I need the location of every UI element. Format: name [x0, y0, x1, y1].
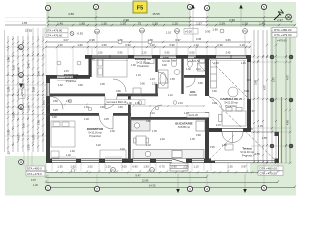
svg-text:1.35: 1.35 [152, 130, 157, 133]
window living-terrace wall [222, 128, 243, 132]
svg-text:0.90: 0.90 [116, 90, 121, 93]
wall int hall top [46, 94, 105, 97]
dim chain top row2 [48, 21, 292, 23]
section arrow top 2 [239, 5, 243, 28]
svg-text:2.10: 2.10 [183, 165, 189, 169]
hall west dimension line [47, 104, 127, 106]
bath counter [145, 59, 154, 64]
svg-text:3: 3 [189, 187, 191, 191]
svg-text:1.10: 1.10 [193, 165, 199, 169]
svg-text:1.30: 1.30 [135, 102, 140, 105]
svg-text:1.35: 1.35 [258, 125, 263, 128]
svg-text:1.50: 1.50 [143, 165, 149, 169]
terrace post top-right [275, 132, 279, 136]
svg-text:2: 2 [96, 187, 98, 191]
svg-text:2.55: 2.55 [262, 137, 267, 140]
svg-text:5: 5 [263, 186, 265, 190]
svg-text:F4: F4 [175, 30, 179, 34]
svg-text:.25: .25 [7, 151, 11, 155]
svg-text:0.80: 0.80 [196, 134, 201, 137]
window left-top wall [57, 75, 73, 79]
green highlight band bottom [5, 156, 46, 196]
section arrow bottom 1 [176, 174, 180, 193]
svg-text:1.35: 1.35 [248, 128, 253, 131]
svg-text:1.48: 1.48 [70, 150, 75, 153]
wall int bath left [155, 58, 157, 72]
svg-text:1.85: 1.85 [22, 21, 28, 25]
wall int hall bottom [46, 113, 99, 116]
svg-text:0.80: 0.80 [53, 100, 58, 103]
window marker bubbles above plan [95, 28, 248, 56]
svg-text:DTA +476.80: DTA +476.80 [46, 29, 63, 33]
entry steps [170, 163, 188, 171]
svg-text:4.97: 4.97 [286, 74, 290, 80]
svg-text:1.48: 1.48 [84, 118, 89, 121]
dim chain above plan row1 [46, 41, 250, 43]
svg-text:0.90: 0.90 [171, 165, 177, 169]
furniture wardrobe room2 [100, 150, 126, 159]
svg-text:.75: .75 [137, 21, 142, 25]
room label camera de zi [220, 97, 242, 108]
wall living bottom [205, 128, 251, 132]
grid bubble 5 bottom [261, 185, 266, 190]
svg-text:1.90: 1.90 [131, 64, 136, 67]
ticks top chains [47, 16, 296, 26]
wall left [46, 75, 50, 163]
furniture kitchen fridge [196, 121, 205, 131]
svg-text:2.30: 2.30 [110, 130, 115, 133]
svg-text:0.25: 0.25 [104, 118, 109, 121]
svg-text:14.30: 14.30 [149, 184, 156, 188]
svg-text:1.40: 1.40 [57, 21, 63, 25]
svg-text:0.25: 0.25 [210, 146, 215, 149]
svg-text:2.00: 2.00 [27, 104, 31, 110]
section arrow bottom 2 [243, 174, 247, 193]
furniture nightstand room2 [51, 151, 59, 158]
room label hol [189, 90, 197, 97]
svg-text:0.45: 0.45 [214, 62, 219, 65]
hall door marker 2 [173, 101, 177, 105]
svg-text:3.05: 3.05 [100, 83, 105, 86]
hall west door marker 2 [88, 107, 92, 111]
svg-text:0.45: 0.45 [196, 37, 202, 41]
hall west door marker 1 [68, 99, 72, 103]
level marker top-left [45, 28, 83, 38]
furniture dining table [219, 87, 247, 126]
door arcs [99, 72, 243, 143]
svg-text:2.15: 2.15 [150, 78, 155, 81]
svg-text:4: 4 [206, 6, 208, 10]
svg-text:S=3.95: S=3.95 [189, 94, 197, 97]
svg-text:4: 4 [206, 187, 208, 191]
svg-text:0.97: 0.97 [175, 38, 181, 42]
svg-text:2.40: 2.40 [27, 62, 31, 68]
svg-text:3: 3 [189, 5, 191, 9]
svg-text:DTA +480.0: DTA +480.0 [27, 167, 42, 171]
svg-text:0.90: 0.90 [125, 43, 131, 47]
svg-text:1.15: 1.15 [136, 74, 141, 77]
orange revision line right [281, 97, 283, 163]
hall label box 1 [105, 100, 145, 105]
svg-text:1.38: 1.38 [127, 102, 132, 105]
svg-text:2.10: 2.10 [178, 102, 183, 105]
svg-text:1.50: 1.50 [22, 122, 26, 128]
wall int bed2 right [128, 96, 131, 160]
svg-text:0.60: 0.60 [190, 52, 195, 55]
svg-text:2.10: 2.10 [42, 99, 46, 105]
WALLS [46, 55, 251, 163]
chain marker circle y42 b [148, 40, 152, 44]
svg-text:1.35: 1.35 [57, 165, 63, 169]
svg-text:2.97: 2.97 [250, 110, 255, 113]
svg-text:3.25: 3.25 [53, 109, 58, 112]
door arc bed2 [99, 115, 113, 129]
dim chain top row3 [48, 24, 295, 26]
grid bubble 4 bottom [204, 186, 209, 191]
wall mid vertical upper [205, 55, 209, 96]
svg-text:0.90: 0.90 [132, 165, 138, 169]
level label box bottom-left [26, 166, 45, 176]
svg-text:P=parchet: P=parchet [225, 105, 237, 108]
svg-text:1.20: 1.20 [33, 184, 38, 187]
stub lines to corner label boxes [24, 152, 32, 166]
furniture bath tub [159, 70, 169, 88]
svg-text:-0.35: -0.35 [77, 32, 84, 36]
wall bottom [46, 159, 211, 164]
svg-text:23.92: 23.92 [25, 29, 32, 33]
svg-text:0.90: 0.90 [169, 43, 175, 47]
windows bottom wall [52, 159, 204, 164]
door arc terrace leaf 2 [233, 132, 244, 143]
wall top main [85, 55, 251, 59]
svg-text:3.20: 3.20 [120, 148, 125, 151]
svg-text:Terasa: Terasa [242, 147, 252, 151]
svg-text:0.90: 0.90 [212, 102, 217, 105]
windows top wall [92, 55, 246, 59]
north arrow [274, 9, 291, 20]
grid bubble 3 top [187, 4, 192, 28]
grid bubble 1 bottom [45, 185, 50, 190]
svg-text:2.00: 2.00 [37, 70, 41, 76]
svg-text:1.02: 1.02 [66, 154, 71, 157]
roof diagonal dashed 3 [209, 134, 235, 160]
svg-text:1.57: 1.57 [196, 21, 202, 25]
svg-text:CTA +479.00: CTA +479.00 [274, 33, 292, 37]
terrace top edge [251, 131, 279, 133]
level label box bottom-right [258, 166, 283, 176]
furniture wc sink [199, 59, 205, 63]
dim chain bottom row1 [46, 171, 278, 173]
room label baie [162, 56, 170, 63]
dim chain bottom row4 [46, 187, 295, 189]
wall right [247, 55, 251, 132]
svg-text:S=4.30: S=4.30 [162, 60, 170, 63]
right dimension chains [254, 30, 290, 163]
window sill lines [52, 61, 246, 158]
extension lines left margin [5, 47, 46, 136]
room label wc [192, 56, 200, 63]
svg-text:CTA +479.0: CTA +479.0 [27, 172, 42, 176]
svg-text:1.20: 1.20 [84, 106, 89, 109]
page border bottom [46, 18, 295, 188]
dimension texts top green band [57, 12, 283, 25]
wall int wc bottom [184, 75, 205, 78]
room label terasa [240, 147, 254, 158]
svg-text:1.20: 1.20 [105, 165, 111, 169]
bath washer [133, 88, 141, 95]
dimension texts bottom [57, 165, 247, 188]
svg-text:0.45: 0.45 [90, 58, 95, 61]
hall dimension line [132, 105, 205, 107]
svg-text:1.10: 1.10 [196, 68, 201, 71]
door arc living [209, 97, 222, 110]
svg-text:15.55: 15.55 [152, 12, 160, 16]
furniture wc toilet [188, 59, 193, 67]
svg-text:1.02: 1.02 [87, 165, 93, 169]
wall top-left lower [46, 75, 90, 79]
svg-text:0.80: 0.80 [146, 120, 151, 123]
svg-text:2.30: 2.30 [217, 43, 223, 47]
ticks bottom chains [45, 170, 296, 187]
svg-text:3.66: 3.66 [212, 90, 217, 93]
svg-text:2.10: 2.10 [27, 144, 31, 150]
green highlight strip right [270, 27, 296, 132]
wall int kitchen top [131, 117, 207, 120]
left dimension chains [8, 36, 43, 152]
svg-text:3.66: 3.66 [254, 79, 258, 85]
door arc hall-bed1 [105, 97, 117, 109]
svg-text:DTA +480.00: DTA +480.00 [260, 167, 278, 171]
svg-text:F3: F3 [140, 29, 144, 33]
svg-text:1.10: 1.10 [166, 31, 172, 35]
svg-text:D: D [20, 45, 23, 50]
terrace post bottom-right [275, 159, 279, 163]
svg-text:1.10: 1.10 [239, 43, 245, 47]
roof diagonal dashed 2 [209, 59, 251, 101]
svg-text:1: 1 [47, 6, 49, 10]
svg-text:5: 5 [263, 5, 265, 9]
left grid bubble B [19, 73, 24, 78]
yellow F5 marker [133, 1, 147, 13]
svg-text:2.02: 2.02 [146, 144, 151, 147]
room label dormitor2 [87, 127, 104, 138]
svg-text:5.30: 5.30 [7, 129, 11, 135]
svg-text:1.50: 1.50 [101, 43, 107, 47]
level label box left-mid [19, 89, 26, 99]
svg-text:1.35: 1.35 [227, 165, 233, 169]
svg-text:0.90: 0.90 [162, 64, 167, 67]
window size texts above wall [98, 52, 231, 55]
svg-text:1.10: 1.10 [168, 94, 173, 97]
furniture kitchen counter top [131, 120, 150, 131]
svg-text:F2: F2 [95, 30, 99, 34]
svg-text:4.57: 4.57 [31, 179, 36, 182]
svg-text:4.97: 4.97 [263, 84, 267, 90]
window marker circle left 1 [57, 61, 61, 65]
ticks above-plan chains [45, 41, 251, 48]
chain tick marks [7, 39, 291, 173]
svg-text:1.10: 1.10 [193, 43, 199, 47]
svg-text:1.50: 1.50 [98, 52, 103, 55]
svg-text:0.90: 0.90 [100, 106, 105, 109]
furniture kitchen counter bottom [133, 150, 204, 159]
svg-text:2.80: 2.80 [7, 56, 11, 62]
svg-text:12.85: 12.85 [142, 179, 149, 183]
furniture bed room1 [97, 58, 127, 78]
window marker circle left 2 [77, 61, 81, 65]
svg-text:2.97: 2.97 [277, 18, 283, 22]
door arc hall closet [50, 97, 63, 110]
svg-text:Gol 1.20: Gol 1.20 [189, 114, 199, 117]
living interior dim line [243, 60, 245, 110]
door arc bed1 inner [113, 79, 126, 92]
grid bubble 2 top [93, 4, 98, 28]
door arc wc [186, 78, 195, 87]
svg-text:CTA +476.60: CTA +476.60 [46, 34, 63, 38]
svg-text:S=1.50: S=1.50 [192, 60, 200, 63]
extension lines right margin [251, 57, 292, 163]
dim chain above plan row2 [46, 46, 250, 48]
terrace right edge [278, 132, 280, 163]
furniture bed room2 [51, 121, 75, 147]
svg-text:0.75: 0.75 [159, 165, 165, 169]
svg-text:S=8.85 mp: S=8.85 mp [178, 126, 191, 129]
svg-text:2.15: 2.15 [216, 124, 221, 127]
svg-text:2.66: 2.66 [213, 28, 219, 32]
dim chain top row1 [48, 17, 292, 19]
svg-text:0.90: 0.90 [165, 52, 170, 55]
terrace bottom edge lines [214, 161, 279, 163]
svg-text:1.65: 1.65 [170, 78, 175, 81]
svg-text:0.80: 0.80 [198, 82, 203, 85]
svg-text:3.07: 3.07 [63, 38, 69, 42]
svg-text:F1: F1 [111, 169, 115, 173]
svg-text:1.50: 1.50 [242, 21, 248, 25]
svg-text:2.15: 2.15 [64, 70, 69, 73]
svg-text:1.85: 1.85 [79, 21, 85, 25]
furniture bath sink [174, 70, 180, 75]
svg-text:Gol usa 0.90/2.10: Gol usa 0.90/2.10 [107, 101, 127, 104]
hall door marker 1 [138, 101, 142, 105]
interior walls [46, 58, 207, 160]
svg-text:DORMITOR: DORMITOR [64, 73, 79, 77]
svg-text:0.90: 0.90 [22, 82, 26, 88]
svg-text:B: B [20, 105, 23, 110]
svg-text:2.20: 2.20 [160, 138, 165, 141]
svg-text:F5: F5 [137, 6, 143, 12]
left grid bubble C [19, 105, 24, 110]
top-left corner chain marks [28, 28, 43, 40]
svg-text:P=parchet: P=parchet [137, 65, 149, 68]
dim chain bottom row2 [46, 177, 207, 179]
door arc kitchen [150, 105, 162, 117]
window right wall [247, 62, 251, 99]
hall label box 2 [187, 113, 209, 118]
room label bucatarie [175, 122, 192, 129]
dimension texts above plan [57, 38, 245, 47]
svg-text:3.66: 3.66 [225, 38, 231, 42]
bottom-left grid bubble A [19, 160, 24, 165]
chain marker circle y42 a [118, 40, 122, 44]
hall door marker 3 [155, 106, 159, 110]
extension lines bottom margin [46, 163, 278, 186]
svg-text:4.60: 4.60 [286, 119, 290, 125]
svg-text:0.98: 0.98 [89, 38, 95, 42]
door arc terrace leaf 1 [222, 132, 233, 143]
svg-text:3.66: 3.66 [12, 112, 16, 118]
svg-text:2.55: 2.55 [255, 153, 260, 156]
svg-text:0.90: 0.90 [244, 90, 249, 93]
level label box top-right [272, 28, 297, 38]
svg-text:1.35: 1.35 [190, 138, 195, 141]
grid bubble 4 top [204, 5, 209, 28]
page background [0, 0, 299, 202]
left grid bubble A [19, 45, 24, 50]
svg-text:P=gresie: P=gresie [242, 154, 253, 157]
interior small dimension texts [52, 58, 267, 157]
svg-text:9.47: 9.47 [135, 174, 141, 178]
page border left [4, 30, 6, 152]
wall int bath right [181, 58, 183, 94]
window marker bubbles below plan [71, 168, 154, 173]
grid bubble 5 top [261, 4, 266, 28]
right chain ticks and texts [253, 55, 291, 163]
svg-text:1.20: 1.20 [57, 43, 63, 47]
section arrow top 1 [191, 5, 195, 43]
grid bubble 1 top [45, 5, 50, 28]
wall terrace bottom [207, 161, 215, 164]
svg-text:DORMITOR: DORMITOR [135, 57, 152, 61]
extension lines top margin [46, 43, 251, 75]
svg-text:2: 2 [95, 5, 97, 9]
svg-text:F5: F5 [243, 30, 247, 34]
svg-text:DORMITOR: DORMITOR [87, 127, 104, 131]
svg-text:U1: U1 [150, 169, 154, 173]
svg-text:2.15: 2.15 [66, 100, 71, 103]
svg-text:2.40: 2.40 [226, 52, 231, 55]
furniture terrace table [225, 144, 233, 150]
svg-text:1.20: 1.20 [142, 52, 147, 55]
svg-text:1.62: 1.62 [70, 165, 76, 169]
svg-text:1.60: 1.60 [77, 43, 83, 47]
svg-text:1.20: 1.20 [241, 62, 246, 65]
svg-text:1.20: 1.20 [172, 21, 178, 25]
svg-text:2.97: 2.97 [272, 76, 276, 82]
svg-text:0.90: 0.90 [118, 52, 123, 55]
left chain ticks and texts [7, 38, 44, 146]
svg-text:1.30: 1.30 [186, 68, 191, 71]
svg-text:+0.00: +0.00 [185, 30, 192, 34]
right grid bubbles [270, 55, 274, 59]
svg-text:0.90: 0.90 [140, 83, 145, 86]
svg-text:P=parchet: P=parchet [89, 135, 101, 138]
svg-text:DTA +480.00: DTA +480.00 [274, 28, 292, 32]
grid bubble 2 bottom [94, 186, 99, 191]
svg-text:3.20: 3.20 [96, 144, 101, 147]
svg-text:S=12.30 mp: S=12.30 mp [65, 78, 78, 80]
svg-text:+479.60: +479.60 [277, 39, 287, 43]
wall step vertical [89, 55, 92, 77]
wall mid vertical lower [205, 112, 209, 163]
roof diagonal dashed 1 [209, 96, 276, 161]
svg-text:1.62: 1.62 [58, 84, 63, 87]
furniture kitchen table [134, 136, 149, 145]
room label dormitor1 inner [64, 73, 79, 83]
dim chain bottom row3 [46, 182, 278, 184]
top-left horizontal stub lines [5, 18, 46, 26]
svg-text:CAMERA DE ZI: CAMERA DE ZI [220, 97, 242, 101]
svg-text:1.10: 1.10 [184, 112, 189, 115]
